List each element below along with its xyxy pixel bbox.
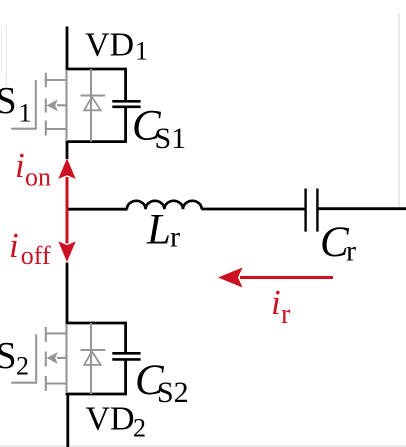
label Lr <box>146 207 180 254</box>
arrow ion (red, up) <box>58 158 75 209</box>
svg-text:i: i <box>9 226 19 265</box>
inductor Lr <box>127 201 202 209</box>
svg-text:S: S <box>0 80 17 122</box>
S1 drain lead <box>46 79 67 81</box>
label ion <box>15 146 51 191</box>
label CS1 <box>132 103 186 155</box>
wire: CS2 top lead <box>124 323 127 352</box>
svg-text:L: L <box>146 207 171 254</box>
S2 channel dash middle <box>45 352 47 367</box>
label VD1 <box>85 27 148 66</box>
capacitor CS1 plates <box>112 100 140 103</box>
capacitor Cr plates <box>304 189 306 232</box>
wire: CS2 bottom lead <box>124 361 127 394</box>
label CS2 <box>135 357 189 409</box>
svg-text:r: r <box>281 299 291 330</box>
faint cropped border at bottom edge <box>0 445 406 447</box>
VD2 triangle <box>84 351 101 365</box>
wire: ioff arrow to S2 cell <box>66 263 69 324</box>
capacitor CS2 plates <box>112 352 140 355</box>
label Cr <box>320 219 356 268</box>
svg-text:S1: S1 <box>155 122 187 155</box>
diode VD1 (body diode of S1, gray) <box>81 69 106 142</box>
VD1 cathode bar <box>81 95 106 97</box>
transistor S1 (MOSFET, gray) <box>11 70 67 141</box>
label S2 <box>0 335 29 381</box>
svg-text:2: 2 <box>133 414 146 443</box>
label ir <box>271 283 291 330</box>
label S1 <box>0 80 32 127</box>
VD1 triangle <box>84 97 101 110</box>
wire: Cr to right edge <box>319 207 406 210</box>
svg-text:VD: VD <box>85 27 134 64</box>
wire: bottom source lead of S2 <box>66 394 69 447</box>
wire: S2 cell top rail <box>66 322 127 325</box>
wire: S2 cell bottom rail <box>66 393 127 396</box>
svg-text:on: on <box>25 162 51 191</box>
S1 body arrowhead <box>47 99 58 111</box>
wire: from S1 source down to ion arrow <box>66 142 69 159</box>
S1 channel dash middle <box>45 99 47 113</box>
svg-text:off: off <box>21 241 51 270</box>
VD2 cathode bar <box>81 349 106 351</box>
VD2 vertical wire <box>90 323 92 394</box>
faint cropped wire 2 at left edge <box>5 24 7 86</box>
S2 channel dash bottom <box>45 376 47 391</box>
arrow ir (red, left) <box>218 268 333 288</box>
S2 gate bar <box>35 334 37 382</box>
S2 source vertical <box>65 324 67 393</box>
S2 body arrow line <box>57 357 67 359</box>
label VD2 <box>86 401 147 443</box>
faint cropped wire at left edge <box>1 25 3 74</box>
diode VD2 (body diode of S2, gray) <box>81 323 106 394</box>
S1 gate bar <box>35 80 37 130</box>
S2 source lead <box>46 382 67 384</box>
svg-text:i: i <box>15 146 25 185</box>
S2 gate lead <box>11 382 37 384</box>
S1 channel dash top <box>45 73 47 87</box>
svg-text:VD: VD <box>86 401 135 438</box>
S2 channel dash top <box>45 327 47 342</box>
VD1 vertical wire <box>90 69 92 142</box>
S1 source vertical <box>65 70 67 141</box>
svg-text:i: i <box>271 283 281 322</box>
S1 body arrow line <box>57 104 67 106</box>
label ioff <box>9 226 51 270</box>
S1 gate lead <box>11 128 37 130</box>
faint cropped wire at right edge <box>398 13 400 208</box>
wire: top drain lead of S1 <box>66 27 69 70</box>
svg-text:r: r <box>170 221 180 254</box>
svg-text:1: 1 <box>19 98 32 127</box>
svg-text:2: 2 <box>16 351 29 380</box>
arrow ioff (red, down) <box>58 209 75 262</box>
wire: CS1 top lead <box>124 69 127 100</box>
S1 channel dash bottom <box>45 121 47 136</box>
S2 drain lead <box>46 332 67 334</box>
wire: S1 cell bottom rail <box>66 140 127 143</box>
S2 body arrowhead <box>47 352 58 364</box>
wire: node to inductor <box>66 208 128 211</box>
svg-text:S2: S2 <box>157 376 189 409</box>
wire: inductor to Cr <box>202 208 305 211</box>
wire: CS1 bottom lead <box>124 108 127 142</box>
transistor S2 (MOSFET, gray) <box>11 324 67 393</box>
svg-text:1: 1 <box>135 37 148 66</box>
svg-text:S: S <box>0 335 17 377</box>
wire: S1 cell top rail <box>66 68 127 71</box>
S1 source lead <box>46 128 67 130</box>
svg-text:r: r <box>346 235 356 268</box>
